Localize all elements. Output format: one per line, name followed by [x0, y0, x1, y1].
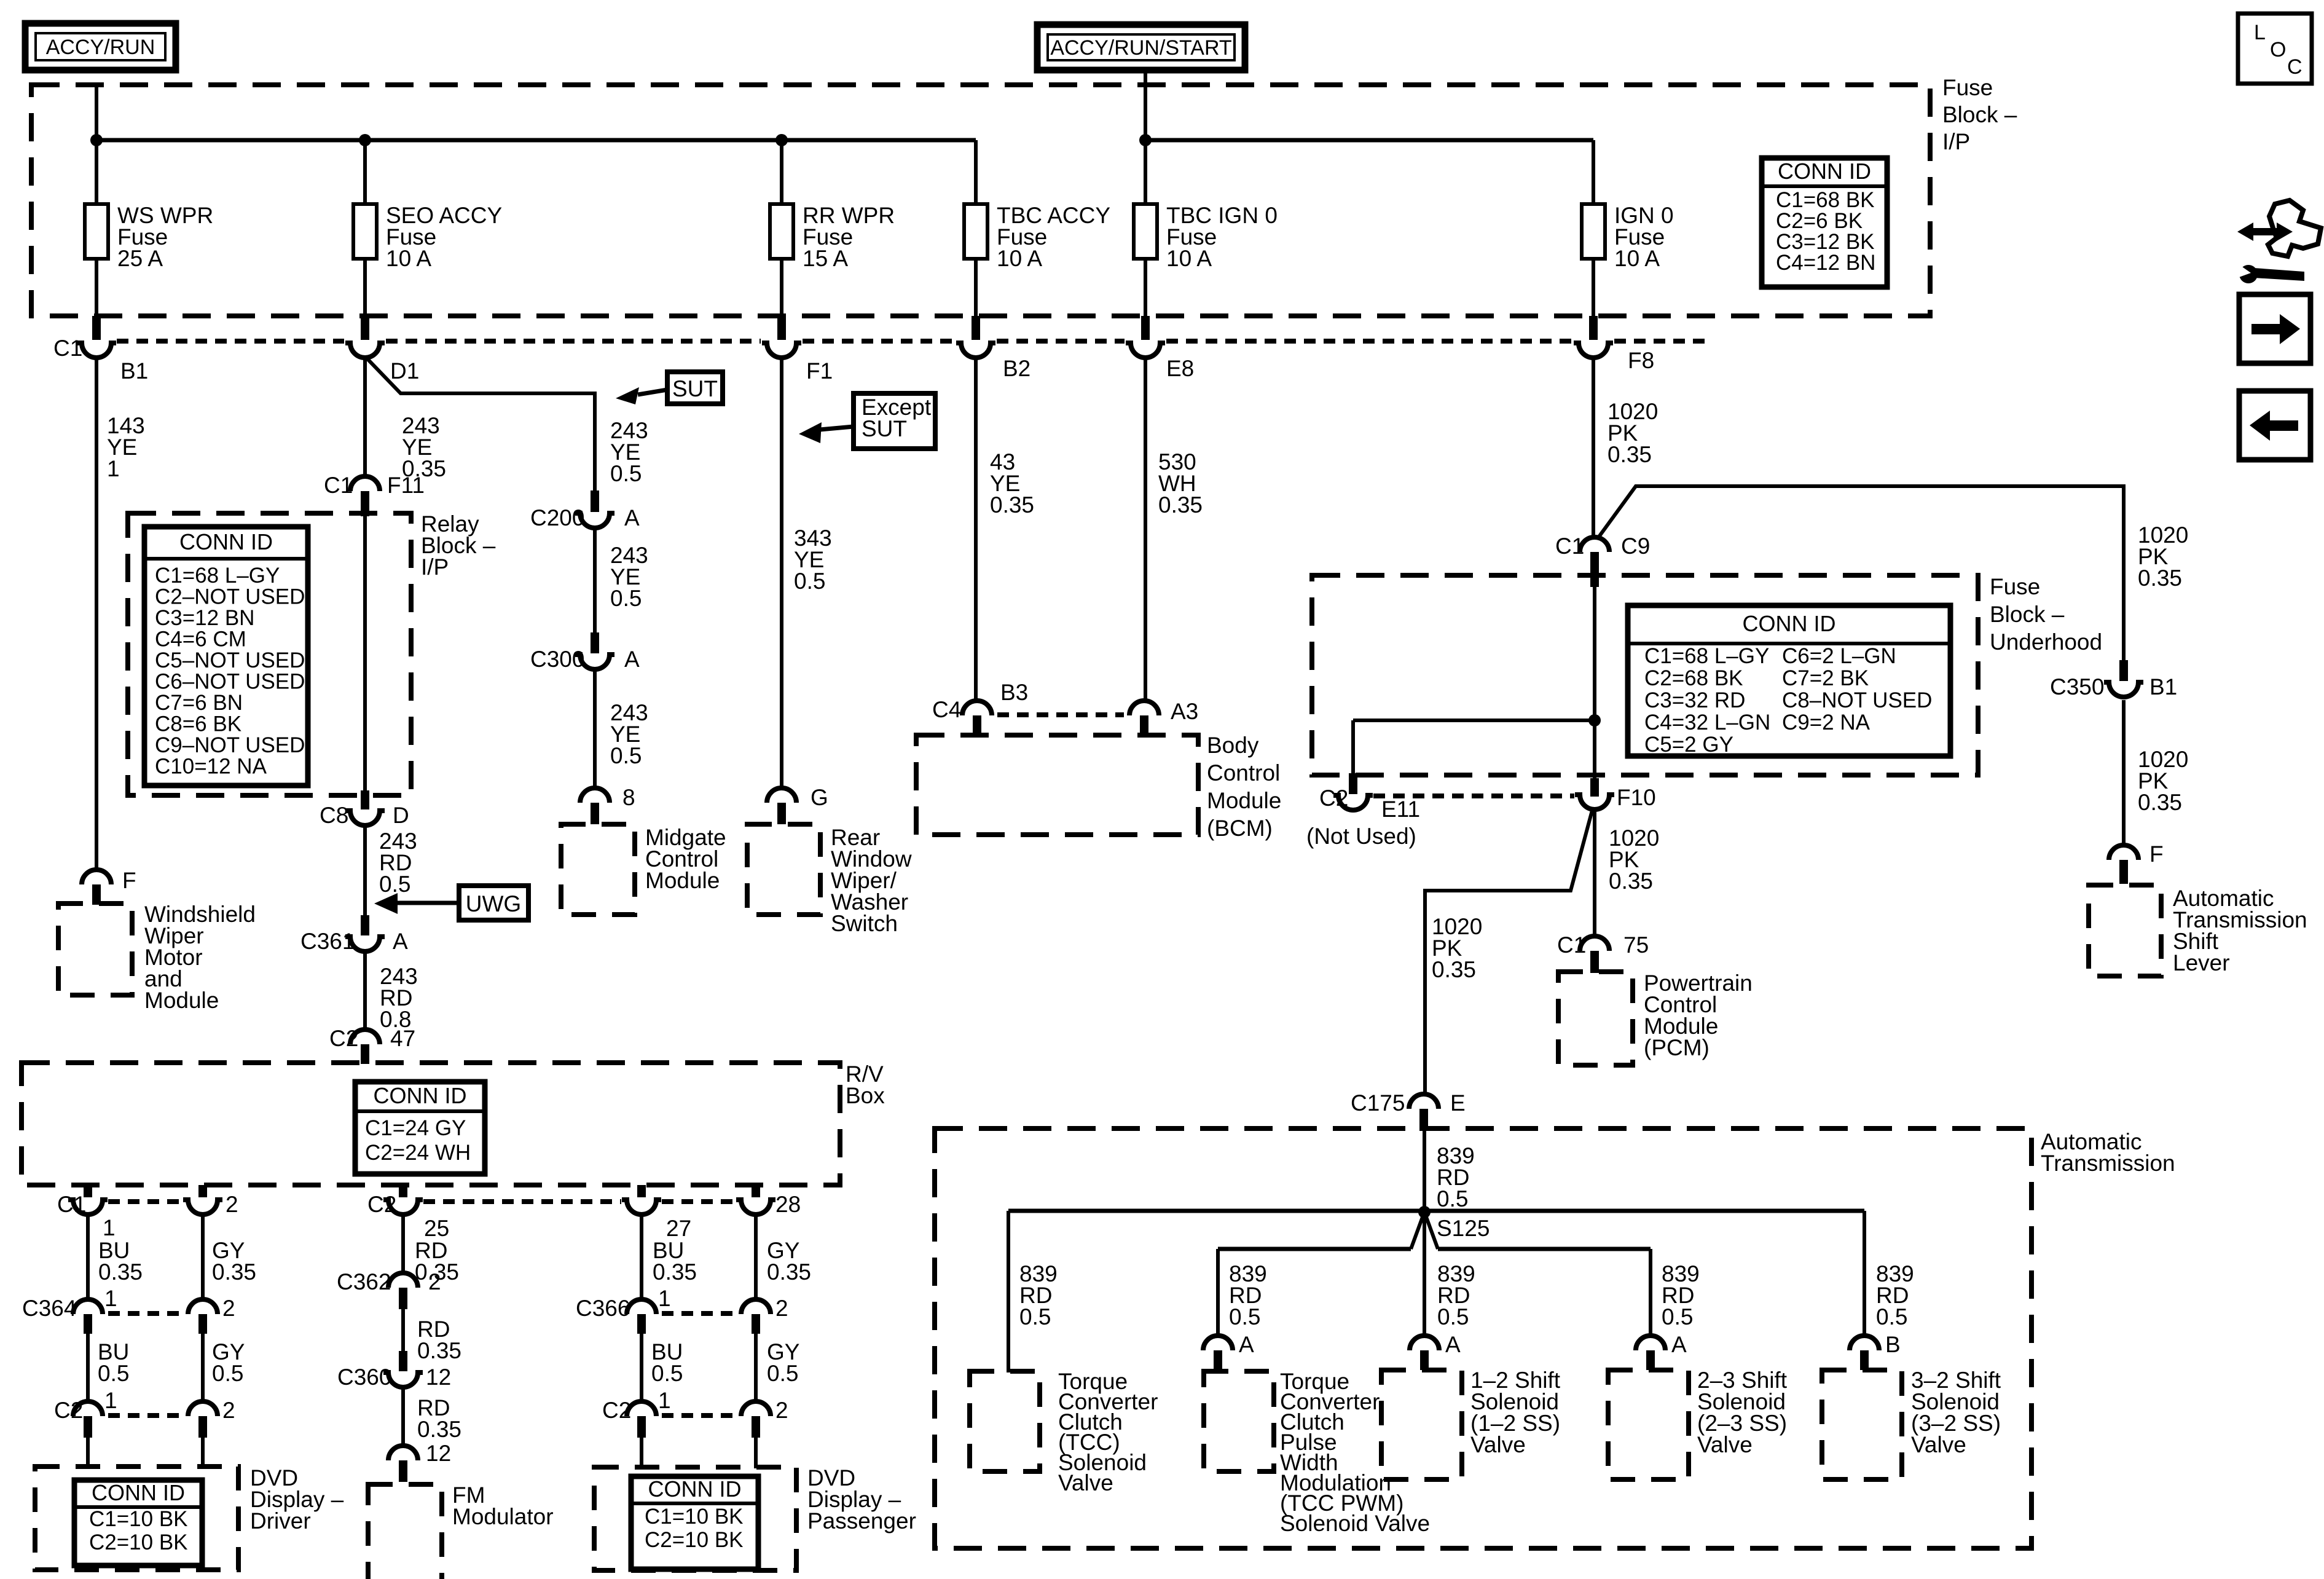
- connector C2 pin 47 R/V box: [329, 1026, 415, 1064]
- svg-text:0.35: 0.35: [1158, 492, 1203, 518]
- fuse TBC ACCY 10A: [964, 203, 1110, 271]
- wire GY 0.35 pin28: [754, 1213, 758, 1302]
- wire S125 branch bus lower left: [1218, 1247, 1411, 1251]
- wire branch to E11: [1353, 720, 1595, 773]
- automatic transmission shift lever box: [2089, 885, 2161, 976]
- 3-2 shift solenoid box: [1822, 1370, 1902, 1479]
- connector pin A 2-3 shift: [1636, 1332, 1687, 1370]
- svg-text:C350: C350: [2050, 674, 2104, 699]
- svg-text:F10: F10: [1617, 785, 1656, 810]
- wire TBC ACCY feed: [974, 140, 978, 318]
- svg-text:2: 2: [226, 1192, 238, 1217]
- svg-text:C1: C1: [57, 1192, 86, 1217]
- DVD display passenger box: [594, 1467, 796, 1570]
- svg-text:B1: B1: [120, 358, 148, 384]
- connector pin B 3-2 shift: [1850, 1332, 1901, 1370]
- svg-text:75: 75: [1623, 932, 1649, 958]
- connector pin A 1-2 shift: [1410, 1332, 1461, 1370]
- wire RD 0.35 C362-C360: [401, 1309, 405, 1351]
- wire 243 YE 0.5 C200-C300: [593, 527, 597, 632]
- R/V box dashed box: [22, 1063, 840, 1185]
- wire F10 branch to C175: [1425, 808, 1593, 1097]
- svg-text:SUT: SUT: [862, 416, 907, 441]
- svg-text:1: 1: [107, 456, 120, 481]
- svg-text:Body: Body: [1207, 733, 1259, 758]
- wire 243 RD 0.8: [363, 950, 367, 1032]
- svg-text:0.35: 0.35: [990, 492, 1034, 518]
- wire SEO ACCY feed: [363, 140, 367, 318]
- wire branch to fuse block underhood: [1598, 486, 2124, 660]
- connector C362 pin 2: [337, 1269, 441, 1309]
- connector C200 pin A: [530, 490, 640, 530]
- svg-text:C2=68 BK: C2=68 BK: [1644, 666, 1743, 690]
- wire RD 0.35 C360-FM: [401, 1386, 405, 1447]
- svg-text:C2=10 BK: C2=10 BK: [645, 1528, 744, 1552]
- svg-text:0.5: 0.5: [610, 461, 642, 486]
- svg-text:C8=6 BK: C8=6 BK: [155, 712, 241, 736]
- wire GY 0.5 passenger: [754, 1334, 758, 1404]
- svg-text:F8: F8: [1628, 348, 1654, 373]
- svg-text:C3=32 RD: C3=32 RD: [1644, 688, 1745, 712]
- junction bus node 1: [90, 134, 103, 146]
- connector C361 pin A: [300, 915, 408, 954]
- svg-text:C1=10 BK: C1=10 BK: [89, 1507, 188, 1531]
- svg-text:C1: C1: [1557, 932, 1586, 958]
- svg-text:C2: C2: [54, 1398, 83, 1423]
- connector C175 pin E: [1351, 1090, 1466, 1131]
- connector C8 pin D: [320, 790, 409, 828]
- junction bus node 4: [1139, 134, 1152, 146]
- svg-text:C1=68 L–GY: C1=68 L–GY: [155, 564, 280, 588]
- svg-text:0.35: 0.35: [2138, 565, 2182, 591]
- svg-text:Valve: Valve: [1697, 1432, 1753, 1457]
- svg-text:C8: C8: [320, 803, 348, 828]
- svg-text:C2: C2: [602, 1398, 631, 1423]
- wire into DVD driver left: [86, 1438, 90, 1468]
- wire GY 0.35 pin2: [201, 1213, 205, 1302]
- connector C2 pin 1 DVD passenger: [602, 1388, 671, 1438]
- wire into DVD driver right: [201, 1438, 205, 1468]
- connector C350 pin B1: [2050, 660, 2177, 699]
- svg-text:0.35: 0.35: [1432, 957, 1476, 982]
- svg-text:B3: B3: [1000, 680, 1028, 705]
- FM modulator box: [368, 1484, 442, 1579]
- svg-text:0.5: 0.5: [794, 569, 825, 594]
- wire TCC PWM branch: [1216, 1249, 1220, 1338]
- fuse block underhood dashed box: [1312, 575, 1978, 775]
- svg-text:Block –: Block –: [1942, 102, 2017, 127]
- svg-text:0.35: 0.35: [212, 1259, 256, 1285]
- connector pin 8 midgate: [580, 785, 635, 824]
- wire GY 0.5: [201, 1334, 205, 1404]
- svg-text:0.35: 0.35: [2138, 790, 2182, 815]
- svg-text:C9–NOT USED: C9–NOT USED: [155, 733, 305, 757]
- svg-text:S125: S125: [1437, 1216, 1490, 1241]
- svg-text:C1=10 BK: C1=10 BK: [645, 1505, 744, 1529]
- svg-text:L: L: [2254, 21, 2266, 44]
- svg-text:C361: C361: [300, 929, 355, 954]
- svg-text:C1: C1: [324, 473, 353, 498]
- svg-text:0.5: 0.5: [651, 1361, 683, 1386]
- svg-text:C6=2 L–GN: C6=2 L–GN: [1782, 644, 1896, 668]
- R/V exit dotted line right: [423, 1199, 621, 1204]
- connector C1 pin 75 PCM: [1557, 932, 1649, 973]
- C366 dotted line: [662, 1311, 736, 1316]
- svg-text:Module: Module: [645, 868, 720, 893]
- wire S125 branch bus lower right: [1438, 1247, 1651, 1251]
- wiring repair icon: [2237, 200, 2321, 283]
- CONN ID table underhood: [1628, 605, 1950, 757]
- fuse block connector dotted line: [117, 339, 344, 344]
- wire 43 YE 0.35: [974, 356, 978, 703]
- connector C1 pin 1 R/V exit: [57, 1185, 116, 1240]
- wire 343 YE 0.5: [780, 356, 783, 789]
- svg-text:(BCM): (BCM): [1207, 816, 1273, 841]
- svg-text:B2: B2: [1003, 356, 1030, 381]
- svg-text:0.5: 0.5: [1437, 1186, 1468, 1211]
- svg-text:Solenoid Valve: Solenoid Valve: [1280, 1511, 1430, 1536]
- powertrain control module box: [1558, 972, 1633, 1065]
- svg-text:C2: C2: [329, 1026, 358, 1051]
- svg-text:25: 25: [424, 1216, 449, 1241]
- wire C350 to shift lever: [2122, 700, 2126, 846]
- svg-text:E11: E11: [1381, 797, 1420, 822]
- wire 1020 PK 0.35 below F8: [1592, 356, 1595, 540]
- connector pin 12 FM modulator: [388, 1441, 451, 1482]
- svg-text:UWG: UWG: [466, 891, 521, 916]
- svg-text:C9: C9: [1621, 534, 1650, 559]
- svg-text:10 A: 10 A: [1166, 246, 1212, 271]
- svg-text:C360: C360: [337, 1364, 391, 1390]
- svg-text:D: D: [393, 803, 409, 828]
- rear window wiper washer switch box: [747, 824, 820, 915]
- svg-text:C2=24 WH: C2=24 WH: [365, 1141, 471, 1165]
- svg-text:(Not Used): (Not Used): [1306, 824, 1416, 849]
- svg-text:A: A: [393, 929, 408, 954]
- svg-text:SUT: SUT: [672, 376, 718, 401]
- wire 3-2 shift branch: [1863, 1211, 1866, 1338]
- svg-text:0.5: 0.5: [1019, 1304, 1051, 1329]
- svg-text:C1=68 L–GY: C1=68 L–GY: [1644, 644, 1769, 668]
- svg-text:F11: F11: [387, 473, 425, 498]
- midgate control module box: [561, 824, 635, 915]
- svg-text:F: F: [2149, 841, 2164, 867]
- svg-text:0.35: 0.35: [1609, 868, 1653, 894]
- svg-text:CONN ID: CONN ID: [1778, 159, 1871, 184]
- C2 DVD passenger dotted line: [662, 1413, 736, 1418]
- svg-text:C200: C200: [530, 505, 584, 530]
- svg-text:10 A: 10 A: [386, 246, 431, 271]
- wire bus ACCY/RUN: [96, 138, 976, 143]
- CONN ID table DVD driver: [74, 1480, 202, 1565]
- connector pin D1: [345, 316, 419, 384]
- svg-text:Switch: Switch: [831, 911, 898, 936]
- svg-text:C2: C2: [367, 1192, 396, 1217]
- wire F11 to C8 inside relay block: [363, 516, 367, 790]
- svg-text:C1: C1: [53, 336, 82, 361]
- junction bus node 3: [775, 134, 788, 146]
- svg-text:0.35: 0.35: [98, 1259, 143, 1285]
- svg-text:Box: Box: [846, 1083, 885, 1108]
- svg-text:0.35: 0.35: [653, 1259, 697, 1285]
- svg-text:12: 12: [426, 1441, 451, 1466]
- svg-text:C10=12 NA: C10=12 NA: [155, 755, 267, 779]
- wire 1-2 shift branch: [1423, 1212, 1426, 1338]
- fuse RR WPR 15A: [770, 203, 895, 271]
- connector C2 pin 1 DVD driver: [54, 1388, 117, 1438]
- svg-text:C7=6 BN: C7=6 BN: [155, 691, 243, 715]
- svg-text:1: 1: [658, 1286, 671, 1311]
- svg-text:10 A: 10 A: [1614, 246, 1660, 271]
- connector pin F10: [1575, 778, 1656, 810]
- fuse SEO ACCY 10A: [353, 203, 502, 271]
- svg-text:A: A: [1239, 1332, 1254, 1357]
- forward reference arrow box: [2239, 294, 2310, 363]
- 1-2 shift solenoid box: [1381, 1370, 1462, 1479]
- svg-text:C2: C2: [1319, 786, 1348, 811]
- svg-text:CONN ID: CONN ID: [179, 529, 273, 554]
- svg-text:1: 1: [103, 1215, 116, 1240]
- svg-text:C300: C300: [530, 647, 584, 672]
- svg-text:A: A: [624, 647, 640, 672]
- svg-text:1: 1: [104, 1286, 117, 1311]
- connector C366 pin 1: [576, 1286, 671, 1334]
- svg-text:C175: C175: [1351, 1090, 1405, 1116]
- svg-text:C4=12 BN: C4=12 BN: [1776, 251, 1875, 275]
- svg-text:C5=2 GY: C5=2 GY: [1644, 733, 1733, 757]
- connector C1 pin C9 underhood: [1555, 534, 1650, 587]
- svg-text:C7=2 BK: C7=2 BK: [1782, 666, 1869, 690]
- svg-text:C2=10 BK: C2=10 BK: [89, 1530, 188, 1554]
- fuse IGN 0 10A: [1582, 203, 1674, 271]
- junction node underhood: [1588, 714, 1601, 726]
- svg-text:25 A: 25 A: [117, 246, 163, 271]
- svg-text:C8–NOT USED: C8–NOT USED: [1782, 688, 1932, 712]
- wire 143 YE below C1/B1: [95, 356, 98, 871]
- svg-text:0.35: 0.35: [417, 1338, 461, 1363]
- connector pin F1: [762, 316, 833, 384]
- CONN ID table DVD passenger: [631, 1476, 758, 1569]
- LOC reference box: [2238, 14, 2312, 84]
- svg-text:ACCY/RUN/START: ACCY/RUN/START: [1050, 36, 1231, 60]
- wire BU 0.5 passenger: [640, 1334, 643, 1404]
- torque converter clutch solenoid valve box: [970, 1371, 1040, 1471]
- svg-text:2: 2: [775, 1398, 788, 1423]
- wire F10 to PCM: [1593, 808, 1596, 939]
- svg-text:Driver: Driver: [250, 1508, 311, 1534]
- svg-text:A3: A3: [1171, 699, 1198, 724]
- svg-text:2: 2: [222, 1296, 235, 1321]
- connector pin 27 R/V exit: [622, 1185, 691, 1241]
- svg-text:0.5: 0.5: [212, 1361, 243, 1386]
- wire TCC branch: [1007, 1211, 1010, 1372]
- wire 530 WH 0.35: [1144, 356, 1147, 703]
- connector C360 pin 12: [337, 1351, 451, 1390]
- wire 839 RD 0.5 to S125: [1423, 1131, 1426, 1212]
- svg-text:E: E: [1450, 1090, 1466, 1116]
- svg-text:CONN ID: CONN ID: [92, 1480, 185, 1505]
- C2 DVD driver dotted line: [108, 1413, 183, 1418]
- svg-text:2: 2: [428, 1269, 441, 1294]
- svg-text:CONN ID: CONN ID: [648, 1476, 742, 1502]
- svg-text:0.35: 0.35: [1608, 442, 1652, 467]
- fuse WS WPR 25A: [85, 203, 213, 271]
- UWG callout box: [374, 886, 528, 920]
- wire RR WPR feed: [780, 140, 783, 318]
- svg-text:A: A: [1671, 1332, 1687, 1357]
- svg-text:0.35: 0.35: [767, 1259, 811, 1285]
- svg-text:C364: C364: [22, 1296, 76, 1321]
- svg-text:Passenger: Passenger: [807, 1508, 916, 1534]
- connector C2 pin 25 R/V exit: [367, 1185, 449, 1241]
- svg-text:Control: Control: [1207, 760, 1280, 786]
- R/V exit dotted line left: [108, 1199, 183, 1204]
- svg-text:Transmission: Transmission: [2041, 1151, 2175, 1176]
- connector C4 pin B3: [932, 680, 1028, 736]
- svg-text:Block –: Block –: [1990, 602, 2065, 627]
- svg-text:0.5: 0.5: [379, 872, 410, 897]
- svg-text:C4: C4: [932, 697, 961, 722]
- svg-text:C3=12 BN: C3=12 BN: [155, 606, 254, 630]
- svg-text:0.5: 0.5: [767, 1361, 798, 1386]
- svg-text:A: A: [1445, 1332, 1461, 1357]
- wire into DVD passenger left: [640, 1438, 643, 1468]
- CONN ID table R/V box: [355, 1082, 485, 1174]
- svg-text:C362: C362: [337, 1269, 391, 1294]
- svg-text:0.5: 0.5: [610, 586, 642, 611]
- connector C364 pin 2: [188, 1296, 235, 1334]
- svg-text:0.5: 0.5: [610, 743, 642, 768]
- TCC PWM solenoid valve box: [1204, 1371, 1274, 1471]
- wire S125 branch bus upper: [1008, 1209, 1864, 1213]
- svg-text:Fuse: Fuse: [1942, 75, 1993, 100]
- connector pin F shift lever: [2109, 841, 2164, 884]
- svg-text:B: B: [1885, 1332, 1901, 1357]
- connector pin 28 R/V exit: [736, 1185, 801, 1217]
- power feed label ACCY/RUN: [25, 23, 176, 70]
- connector C1 pin F11 relay block: [324, 473, 425, 516]
- svg-text:B1: B1: [2149, 674, 2177, 699]
- svg-text:12: 12: [426, 1364, 451, 1390]
- svg-text:47: 47: [390, 1026, 415, 1051]
- wire WS WPR feed: [95, 85, 98, 318]
- connector pin 2 DVD driver: [188, 1398, 235, 1438]
- connector pin F8: [1574, 316, 1654, 373]
- CONN ID table relay block: [144, 527, 308, 786]
- power feed label ACCY/RUN/START: [1037, 25, 1245, 70]
- body control module box: [916, 735, 1198, 835]
- svg-text:10 A: 10 A: [997, 246, 1042, 271]
- svg-text:D1: D1: [390, 358, 419, 384]
- svg-text:F: F: [122, 868, 136, 893]
- svg-text:1: 1: [104, 1388, 117, 1413]
- svg-text:Module: Module: [144, 988, 219, 1013]
- E11 F10 dotted line: [1373, 793, 1574, 798]
- svg-text:2: 2: [775, 1296, 788, 1321]
- svg-text:2: 2: [222, 1398, 235, 1423]
- splice S125: [1411, 1206, 1490, 1249]
- svg-text:0.5: 0.5: [1437, 1304, 1469, 1329]
- connector C300 pin A: [530, 632, 640, 672]
- Except SUT callout box: [799, 393, 935, 449]
- svg-text:(PCM): (PCM): [1644, 1035, 1710, 1060]
- wire branch D1 to SUT midgate riser: [366, 358, 595, 490]
- svg-text:Valve: Valve: [1911, 1432, 1966, 1457]
- svg-text:Module: Module: [1207, 788, 1281, 813]
- svg-text:I/P: I/P: [421, 554, 449, 580]
- svg-text:C5–NOT USED: C5–NOT USED: [155, 648, 305, 672]
- relay block I/P dashed box: [128, 513, 411, 795]
- connector pin B2: [956, 316, 1030, 381]
- svg-text:CONN ID: CONN ID: [1743, 611, 1836, 636]
- wire TBC IGN 0 feed: [1144, 70, 1147, 318]
- svg-text:C1: C1: [1555, 534, 1584, 559]
- connector C1 pin B1: [53, 316, 148, 384]
- svg-text:A: A: [624, 505, 640, 530]
- svg-text:0.5: 0.5: [1876, 1304, 1907, 1329]
- wire IGN 0 feed: [1592, 140, 1595, 318]
- svg-text:8: 8: [622, 785, 635, 810]
- svg-text:C1=24 GY: C1=24 GY: [365, 1116, 466, 1140]
- wire 2-3 shift branch: [1649, 1249, 1652, 1338]
- wire inside underhood block: [1593, 587, 1596, 778]
- wire 243 YE from D1: [363, 356, 367, 478]
- svg-text:C: C: [2287, 55, 2302, 79]
- wire RD 0.35 pin25: [401, 1213, 405, 1275]
- wire 243 YE 0.5 C300-midgate: [593, 668, 597, 789]
- svg-text:CONN ID: CONN ID: [374, 1083, 467, 1108]
- C364 dotted line: [108, 1311, 183, 1316]
- fuse block I/P dashed box: [31, 85, 1930, 316]
- connector pin 2 DVD passenger: [741, 1398, 788, 1438]
- wire BU 0.35 pin27: [640, 1213, 643, 1302]
- wire bus ACCY/RUN/START: [1145, 138, 1593, 143]
- wire into DVD passenger right: [754, 1438, 758, 1468]
- backward reference arrow box: [2239, 391, 2310, 460]
- svg-text:C4=6 CM: C4=6 CM: [155, 628, 246, 652]
- svg-text:Fuse: Fuse: [1990, 574, 2040, 599]
- svg-text:O: O: [2270, 38, 2286, 61]
- 2-3 shift solenoid box: [1608, 1370, 1689, 1479]
- automatic transmission dashed box: [935, 1128, 2032, 1548]
- connector pin E8: [1126, 316, 1194, 381]
- svg-text:G: G: [811, 785, 828, 810]
- svg-text:I/P: I/P: [1942, 129, 1970, 154]
- windshield wiper motor module box: [58, 904, 132, 995]
- svg-text:0.5: 0.5: [1662, 1304, 1693, 1329]
- wire 243 RD 0.5: [363, 824, 367, 915]
- svg-text:F1: F1: [806, 358, 833, 384]
- svg-text:Modulator: Modulator: [452, 1504, 554, 1529]
- connector C2 pin E11 not used: [1319, 773, 1420, 822]
- svg-text:Underhood: Underhood: [1990, 629, 2102, 655]
- svg-text:ACCY/RUN: ACCY/RUN: [46, 36, 155, 59]
- svg-text:Valve: Valve: [1058, 1470, 1113, 1495]
- svg-text:27: 27: [666, 1216, 691, 1241]
- svg-text:E8: E8: [1166, 356, 1194, 381]
- connector C364 pin 1: [22, 1286, 117, 1334]
- wire C350 1020 PK: [2122, 486, 2126, 660]
- connector pin 2 R/V exit: [183, 1185, 238, 1217]
- fuse TBC IGN 0 10A: [1134, 203, 1278, 271]
- connector pin G rear wiper switch: [767, 785, 828, 824]
- svg-text:0.5: 0.5: [98, 1361, 129, 1386]
- svg-text:Valve: Valve: [1470, 1432, 1526, 1457]
- svg-text:1: 1: [658, 1388, 671, 1413]
- svg-text:C6–NOT USED: C6–NOT USED: [155, 670, 305, 694]
- wire BU 0.5: [86, 1334, 90, 1404]
- SUT callout box: [616, 372, 723, 404]
